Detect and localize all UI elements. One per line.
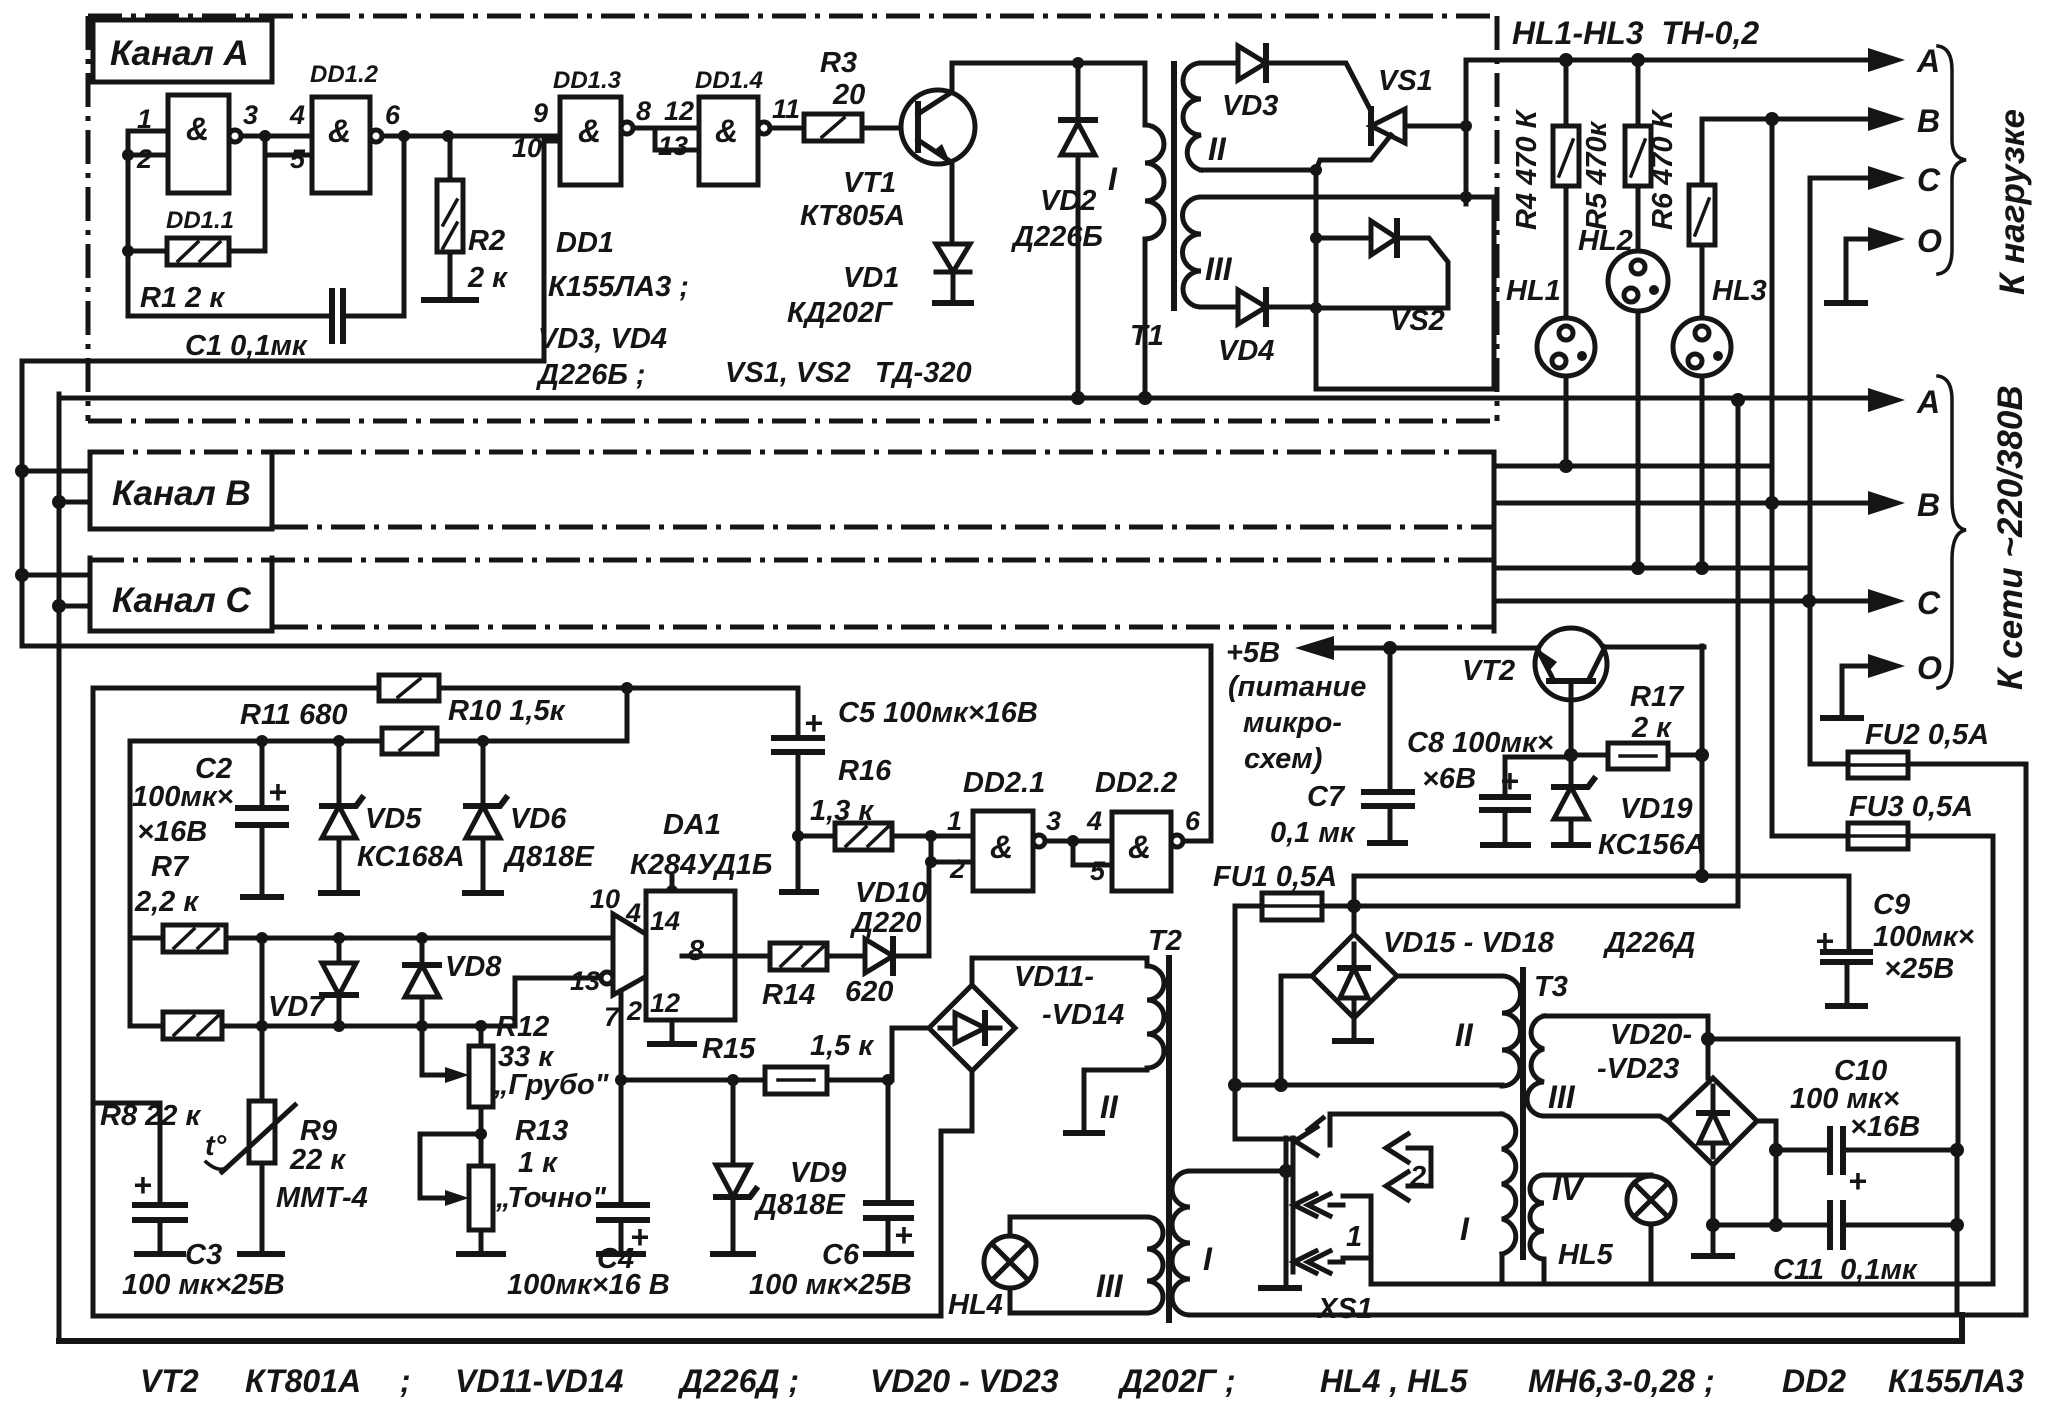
wire +5V rail [1295,636,1334,660]
svg-text:;: ; [400,1363,411,1399]
svg-text:С3: С3 [185,1239,222,1271]
svg-text:5: 5 [1090,856,1106,886]
capacitor C3 [93,1103,160,1254]
wire load phase A [1466,58,1872,63]
transformer T2 winding III [1147,1217,1163,1313]
wire mains phase C [1494,599,1872,604]
gate DD2.2 [1112,812,1171,891]
svg-text:КС168А: КС168А [357,841,465,873]
svg-text:R11 680: R11 680 [240,699,348,731]
wire DD1.3 out to DD1.4 [633,126,699,131]
svg-text:ММТ-4: ММТ-4 [276,1182,368,1214]
wire supply rail y876 to C9 [1354,876,1849,952]
fuse FU1 [1235,904,1738,909]
svg-text:III: III [1548,1079,1576,1115]
XS1 mating side 2 [1386,1134,1408,1200]
svg-text:11: 11 [772,94,800,124]
wire mains phase A [59,396,1872,401]
gate DD1.2 [312,97,370,193]
svg-text:VD10: VD10 [855,877,928,909]
svg-text:С7: С7 [1307,781,1346,813]
svg-text:VS1, VS2 ТД-320: VS1, VS2 ТД-320 [725,357,972,389]
svg-text:2,2 к: 2,2 к [134,886,199,918]
Канал C box [90,558,272,631]
diode VD10 [865,939,893,973]
svg-text:R15: R15 [702,1033,756,1065]
resistor R4 [1564,60,1569,318]
svg-text:Т1: Т1 [1130,320,1164,352]
capacitor C2 [256,735,268,747]
svg-text:Д226Б: Д226Б [1010,221,1103,253]
wire DD2.1 out [1045,839,1112,844]
wire pin10 from mains sense [544,139,560,144]
svg-text:13: 13 [570,966,600,996]
svg-text:DD2.2: DD2.2 [1095,767,1177,799]
svg-text:&: & [990,829,1013,865]
svg-text:×16В: ×16В [137,816,207,848]
svg-text:R12: R12 [496,1011,549,1043]
svg-text:VD3, VD4: VD3, VD4 [538,323,667,355]
svg-text:R4 470 К: R4 470 К [1511,108,1543,230]
Канал B box [90,452,272,529]
svg-text:К155ЛА3: К155ЛА3 [1888,1363,2024,1399]
svg-text:С: С [1917,162,1941,198]
op-amp DA1 [613,914,682,995]
thermo box left border [91,688,96,1316]
vertical load C to FU2 [1808,178,1813,764]
svg-text:схем): схем) [1244,743,1322,775]
svg-text:КТ801А: КТ801А [245,1363,361,1399]
svg-text:t°: t° [205,1130,227,1162]
transformer T2 winding II [1147,966,1164,1068]
gate DD1.4 [699,97,758,185]
wire VS2 return [1316,308,1494,389]
svg-text:VD7: VD7 [268,991,326,1023]
wire bridge15 right to T3 [1397,974,1502,979]
resistor R7 [130,936,613,941]
svg-text:КТ805А: КТ805А [800,200,905,232]
svg-text:С1 0,1мк: С1 0,1мк [185,330,308,362]
capacitor C1 [128,314,330,319]
wire DD1.1 out to DD1.2 [241,134,312,139]
svg-text:8: 8 [688,935,705,967]
rail y741 [130,688,627,741]
svg-text:С8 100мк×: С8 100мк× [1407,727,1554,759]
svg-text:HL2: HL2 [1578,225,1633,257]
zener VD19 [1569,755,1574,845]
svg-text:VD4: VD4 [1218,335,1274,367]
capacitor C9 [1823,952,1870,962]
diode VD4 [1201,305,1316,310]
svg-text:14: 14 [650,906,680,936]
svg-text:&: & [328,113,351,149]
svg-text:10: 10 [512,133,542,163]
node VD8 top [416,932,428,944]
diode VD7 [337,938,342,1026]
svg-text:R14: R14 [762,979,815,1011]
node VD7 top [333,932,345,944]
zener VD9 [731,1080,736,1254]
svg-text:+5В: +5В [1226,637,1280,669]
rail top y688 [93,686,798,691]
svg-text:R6 470 К: R6 470 К [1647,108,1679,230]
svg-text:VD19: VD19 [1620,793,1693,825]
svg-text:Д226Б ;: Д226Б ; [535,359,646,391]
svg-text:VD15 - VD18: VD15 - VD18 [1383,927,1555,959]
svg-text:1,3 к: 1,3 к [810,795,874,827]
svg-text:100мк×16 В: 100мк×16 В [507,1269,670,1301]
svg-text:КС156А: КС156А [1598,829,1706,861]
brace mains [1938,376,1966,688]
svg-text:VD11-VD14: VD11-VD14 [455,1363,624,1399]
svg-text:R2: R2 [468,225,505,257]
svg-text:HL4 , HL5: HL4 , HL5 [1320,1363,1469,1399]
svg-text:6: 6 [385,100,401,130]
thyristor VS2 [1310,232,1322,244]
svg-text:+: + [1500,763,1519,799]
outer box bottom border [59,1315,1962,1341]
svg-text:DD1.4: DD1.4 [695,67,763,94]
svg-text:С5 100мк×16В: С5 100мк×16В [838,697,1038,729]
wire load neutral O [1846,239,1872,303]
wire load phase C [1810,176,1872,181]
wire channel C upper stub to load C bus [1494,566,1807,571]
resistor R10 [382,728,437,754]
svg-text:4: 4 [625,898,641,928]
svg-text:VT2: VT2 [140,1363,199,1399]
resistor R1 [128,249,265,254]
svg-text:VT1: VT1 [843,167,896,199]
svg-text:VD11-: VD11- [1014,961,1094,993]
svg-text:HL1-HL3 ТН-0,2: HL1-HL3 ТН-0,2 [1512,15,1759,51]
wire C6 node to bridge [888,1028,929,1080]
svg-text:DD1.3: DD1.3 [553,67,622,94]
svg-text:620: 620 [845,976,893,1008]
second left bus x59 [57,394,62,1341]
svg-text:К нагрузке: К нагрузке [1993,109,2032,295]
DD1.1 input bus [126,131,131,316]
resistor R15 [621,1078,888,1083]
node bus59 to channel B [52,495,66,509]
svg-text:6: 6 [1185,806,1201,836]
svg-text:2: 2 [1409,1161,1426,1193]
svg-text:VD5: VD5 [365,803,422,835]
resistor R11 [379,675,439,701]
ground bar DA1 correction box [670,1020,675,1044]
DA1 correction box [670,874,675,891]
svg-text:микро-: микро- [1243,707,1342,739]
svg-text:×6В: ×6В [1422,763,1476,795]
capacitor C10 [1776,1148,1957,1153]
node on left bus to channel B [15,464,29,478]
transformer T1 winding II [1183,63,1201,170]
svg-text:+: + [133,1167,152,1203]
fuse FU2 [1810,764,2026,1315]
svg-text:HL5: HL5 [1558,1239,1614,1271]
svg-text:13: 13 [658,131,688,161]
svg-text:О: О [1917,650,1942,686]
svg-text:VD20-: VD20- [1610,1019,1692,1051]
svg-text:-VD23: -VD23 [1597,1053,1679,1085]
svg-text:DD2: DD2 [1782,1363,1846,1399]
svg-text:4: 4 [289,100,305,130]
transformer T1 winding III [1183,197,1201,307]
svg-text:Д226Д: Д226Д [1602,927,1695,959]
resistor R2 [448,136,453,300]
svg-text:DD1.1: DD1.1 [166,207,234,234]
bridge VD20-VD23 [1668,1078,1757,1165]
node VD9 top [727,1074,739,1086]
svg-text:II: II [1100,1089,1119,1125]
svg-text:DD1.2: DD1.2 [310,61,379,88]
svg-text:5: 5 [290,144,306,174]
wire top rail y63 (VT1 collector to T1) [952,61,1142,66]
potentiometer R13 Точно [420,1134,481,1198]
svg-text:+: + [268,774,287,810]
diode VD1 [936,244,970,272]
capacitor C6 [886,1080,891,1254]
wire AC long y1085 [1235,1085,1502,1086]
svg-text:1,5 к: 1,5 к [810,1030,874,1062]
node bus59 to channel C [52,599,66,613]
svg-text:А: А [1916,384,1940,420]
lamp HL4 [984,1236,1036,1288]
svg-text:XS1: XS1 [1316,1293,1373,1325]
svg-text:Д202Г ;: Д202Г ; [1117,1363,1236,1399]
resistor R6 [1700,119,1705,318]
svg-text:+: + [1848,1163,1867,1199]
zener VD5 [333,735,345,747]
brace load [1938,46,1966,274]
transformer T3 core [1520,970,1526,1257]
wire bridge20 top loop to C10 right [1708,1039,1958,1150]
svg-text:12: 12 [664,96,694,126]
svg-text:I: I [1108,161,1118,197]
Канал А box [93,20,272,82]
svg-text:4: 4 [1086,806,1102,836]
svg-text:FU3 0,5А: FU3 0,5А [1849,791,1973,823]
vertical load B to FU3 [1770,119,1775,836]
svg-text:×16В: ×16В [1850,1111,1920,1143]
svg-text:&: & [578,113,601,149]
wire DD2.2 out [1183,839,1211,844]
svg-text:7: 7 [604,1002,621,1032]
svg-text:10: 10 [590,884,620,914]
vertical mains A to FU1 [1736,400,1741,906]
resistor R3 [770,126,918,131]
thermo box bottom border [93,1314,941,1319]
wire channel B upper stub to load B bus [1494,464,1772,469]
lamp HL2 [1608,251,1668,311]
resistor R14 [682,954,865,959]
svg-text:R3: R3 [820,47,857,79]
thyristor VS1 [1405,124,1466,129]
wire mains A sense to DD1.3 pin10 [22,141,560,361]
capacitor C4 [619,1080,624,1254]
svg-text:„Грубо": „Грубо" [493,1069,610,1101]
svg-text:VT2: VT2 [1462,655,1515,687]
svg-text:22 к: 22 к [289,1144,346,1176]
resistor R5 [1636,60,1641,251]
svg-text:Д818Е: Д818Е [753,1189,846,1221]
wire common return y1284 [1371,1258,1993,1284]
wire bridge top to T2 winding II [972,958,1147,985]
svg-text:А: А [1916,43,1940,79]
svg-text:1: 1 [137,104,152,134]
svg-text:R17: R17 [1630,681,1685,713]
wire +5V right drop [1700,646,1705,876]
svg-text:Т2: Т2 [1148,925,1182,957]
lamp HL3 [1673,318,1731,376]
svg-text:VD8: VD8 [445,951,502,983]
svg-text:МН6,3-0,28 ;: МН6,3-0,28 ; [1528,1363,1715,1399]
wire out node down to R1 and pin5 [263,136,268,251]
wire neutral rail y645 [22,646,1211,841]
svg-text:1: 1 [1346,1221,1362,1253]
svg-text:2 к: 2 к [1631,712,1672,744]
thermo box right border wire [941,1131,972,1316]
bridge20 bottom to common [1711,1165,1716,1256]
right bus of thyristor block [1464,60,1469,204]
resistor R8 [130,978,602,1026]
svg-text:2 к: 2 к [467,262,508,294]
capacitor C11 [1774,1150,1779,1225]
XS1 contact pin middle [1294,1194,1330,1216]
svg-text:Д226Д ;: Д226Д ; [677,1363,799,1399]
svg-text:9: 9 [533,98,548,128]
transistor VT1 [901,90,975,164]
svg-text:3: 3 [1046,806,1061,836]
svg-text:2: 2 [136,144,152,174]
transformer T2 core [1166,958,1172,1320]
capacitor C5 [796,688,801,836]
fuse FU3 [1772,836,1993,1284]
thermistor R9 [260,938,265,1254]
svg-text:HL3: HL3 [1712,275,1767,307]
svg-text:III: III [1096,1268,1124,1304]
svg-text:HL1: HL1 [1506,275,1561,307]
ground bar bridge VD15-VD18 [1335,1038,1371,1044]
connector XS1 [1286,1138,1293,1272]
XS1 mating side 1 [1330,1205,1343,1262]
svg-text:Т3: Т3 [1534,971,1568,1003]
svg-text:VD1: VD1 [843,262,899,294]
svg-text:8: 8 [636,96,651,126]
svg-text:FU1 0,5А: FU1 0,5А [1213,861,1337,893]
transformer T3 winding I [1502,1114,1516,1254]
svg-text:2: 2 [626,996,642,1026]
svg-text:20: 20 [832,79,865,111]
diode VD8 [420,938,425,1026]
wire bridge20 right to C10 left [1757,1121,1776,1150]
diode VD2 [1076,63,1081,398]
node on left bus to channel C [15,568,29,582]
svg-text:R1 2 к: R1 2 к [140,282,225,314]
transformer T1 winding I [1143,63,1148,125]
node R12 top [475,1020,487,1032]
svg-text:R10 1,5к: R10 1,5к [448,695,566,727]
svg-text:12: 12 [650,988,680,1018]
svg-text:R9: R9 [300,1115,337,1147]
bridge VD15-VD18 [1312,934,1397,1018]
wire mains neutral O [1842,666,1872,718]
svg-text:-VD14: -VD14 [1042,999,1124,1031]
svg-text:&: & [715,113,738,149]
svg-text:К155ЛА3 ;: К155ЛА3 ; [548,271,689,303]
svg-text:R13: R13 [515,1115,568,1147]
svg-text:VD9: VD9 [790,1157,846,1189]
svg-text:3: 3 [243,100,258,130]
wire bridge bottom [970,1071,975,1131]
svg-text:+: + [894,1217,913,1253]
svg-text:Д220: Д220 [849,907,921,939]
capacitor C8 [1505,757,1571,845]
svg-text:Канал А: Канал А [110,34,249,73]
svg-text:HL4: HL4 [948,1289,1003,1321]
svg-text:II: II [1455,1017,1474,1053]
svg-text:VD20 - VD23: VD20 - VD23 [870,1363,1059,1399]
svg-text:1: 1 [947,806,962,836]
svg-text:VD2: VD2 [1040,185,1096,217]
svg-text:С: С [1917,585,1941,621]
transformer T3 winding II [1502,976,1521,1086]
transformer T1 core [1171,64,1177,308]
transistor VT2 [1535,628,1607,700]
svg-text:100мк×: 100мк× [1873,921,1975,953]
svg-text:В: В [1917,487,1940,523]
svg-text:(питание: (питание [1228,671,1366,703]
DA1 supply vertical pin7 [619,991,624,1080]
potentiometer R12 Грубо [479,1026,484,1166]
svg-text:FU2 0,5А: FU2 0,5А [1865,719,1989,751]
wire mains phase B [1494,501,1872,506]
svg-text:2: 2 [949,854,965,884]
gate DD1.3 [560,97,621,185]
svg-text:С9: С9 [1873,889,1910,921]
bridge VD11-VD14 [929,985,1015,1071]
svg-text:„Точно": „Точно" [495,1182,607,1214]
wire bridge15 left to AC [1281,976,1312,1085]
svg-text:Канал С: Канал С [112,581,252,620]
wire C10 right drop [1955,1150,1960,1315]
svg-text:DD2.1: DD2.1 [963,767,1045,799]
wire FU1 to XS1 [1235,906,1294,1139]
svg-text:DA1: DA1 [663,809,721,841]
transformer T3 winding III [1527,1016,1544,1116]
svg-text:КД202Г: КД202Г [787,297,893,329]
svg-text:В: В [1917,103,1940,139]
svg-text:I: I [1203,1241,1213,1277]
svg-text:К сети ~220/380В: К сети ~220/380В [1991,385,2030,690]
node VD8 bottom [416,1020,428,1032]
collapsed strips right closure [1492,452,1497,631]
svg-text:1 к: 1 к [518,1147,558,1179]
capacitor C7 [1388,648,1393,843]
svg-text:DD1: DD1 [556,227,614,259]
svg-text:VS1: VS1 [1378,65,1433,97]
svg-text:I: I [1460,1211,1470,1247]
svg-text:III: III [1205,251,1233,287]
svg-text:&: & [1128,829,1151,865]
svg-text:R16: R16 [838,755,892,787]
wire T2 bottom long [1190,1313,2026,1318]
svg-text:С11 0,1мк: С11 0,1мк [1773,1254,1918,1286]
resistor R17 [1564,748,1578,762]
gate DD1.1 [168,95,229,193]
wire DD1.2 out to DD1.3 [382,134,560,139]
lamp HL5 [1627,1176,1675,1224]
gate DD2.1 [931,834,973,839]
